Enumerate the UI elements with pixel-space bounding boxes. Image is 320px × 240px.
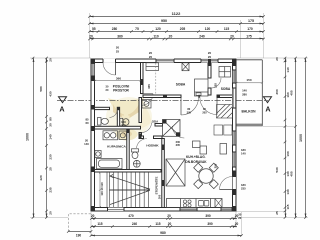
svg-text:140: 140 — [286, 67, 290, 72]
window east living 2 — [233, 152, 237, 167]
svg-text:1000: 1000 — [26, 133, 30, 141]
entrance door bottom — [108, 208, 125, 212]
stairs mid rail — [110, 189, 151, 191]
svg-text:470: 470 — [128, 214, 134, 218]
door size 80/205 right — [202, 107, 207, 114]
armchair — [220, 144, 227, 155]
exterior wall bottom — [91, 208, 236, 212]
svg-text:20: 20 — [169, 35, 173, 39]
svg-text:205: 205 — [202, 110, 207, 114]
wall callout 20/20 right — [208, 51, 212, 59]
section line A-A — [57, 100, 268, 102]
top dimension row 4 (20 360 110 20 240 20 175) — [88, 38, 265, 41]
svg-text:20: 20 — [235, 222, 239, 226]
svg-text:SOBA: SOBA — [176, 83, 186, 87]
svg-text:KUPAONICA: KUPAONICA — [107, 145, 126, 149]
window top 2 — [201, 59, 218, 63]
left dimension column 2 (chain) — [45, 57, 48, 219]
left dimension column 1 (1000) — [32, 57, 35, 219]
door arc soba2 entry (right leaf) — [200, 98, 217, 115]
svg-text:175: 175 — [246, 35, 252, 39]
interior wall I9b — [154, 136, 163, 139]
svg-text:140: 140 — [49, 134, 53, 139]
door arc soba2 — [211, 78, 221, 88]
toilet wc1 — [98, 118, 109, 126]
svg-text:20: 20 — [230, 35, 234, 39]
toilet wc2 — [132, 149, 139, 159]
svg-text:115: 115 — [155, 222, 160, 226]
svg-text:200: 200 — [176, 140, 181, 144]
callout 140/200 — [121, 120, 126, 128]
X-box corner piers — [163, 120, 181, 137]
callout 200/305 — [176, 140, 181, 147]
svg-text:580: 580 — [39, 86, 43, 91]
svg-text:360: 360 — [117, 35, 123, 39]
svg-text:25: 25 — [275, 211, 279, 215]
closet shaft X-box — [163, 120, 181, 137]
top dimension row 2 (950 / 175) — [88, 22, 265, 25]
svg-text:120: 120 — [155, 27, 161, 31]
svg-text:140: 140 — [241, 152, 246, 156]
right dimension column C (1000) — [304, 57, 307, 219]
interior wall I2a (hall north) — [143, 95, 181, 98]
dim 360 poslovni — [94, 80, 142, 82]
hatched pantry box living NE — [217, 105, 233, 119]
svg-text:25: 25 — [49, 167, 53, 171]
svg-text:280: 280 — [112, 27, 118, 31]
svg-text:STEPENIŠTE: STEPENIŠTE — [153, 176, 158, 194]
svg-text:390: 390 — [205, 214, 211, 218]
interior wall I5 (wc east) — [117, 107, 119, 129]
wardrobe soba1 left — [146, 63, 159, 71]
svg-text:205: 205 — [180, 27, 186, 31]
svg-text:115: 115 — [97, 222, 102, 226]
svg-text:60: 60 — [85, 121, 89, 125]
callout 180/140 — [241, 148, 246, 156]
svg-text:980: 980 — [160, 231, 166, 235]
interior wall I4 (wc north) — [95, 107, 110, 109]
double washbasin bathroom — [103, 131, 118, 140]
section marker A right — [264, 97, 272, 103]
door poslovni leaf — [142, 93, 154, 95]
section marker A left — [59, 97, 67, 103]
callout 180/235 — [241, 183, 246, 191]
bed soba1 — [195, 79, 209, 96]
svg-text:BALKON: BALKON — [241, 110, 256, 114]
corner piers — [91, 59, 236, 211]
door arc kupaonica — [142, 123, 152, 133]
svg-text:DN.BORAVAK: DN.BORAVAK — [185, 160, 207, 164]
dimension 190 (porch) — [67, 230, 92, 233]
stairs diagonals — [110, 175, 150, 205]
callout 20/20 kitchen — [238, 212, 242, 220]
svg-text:430: 430 — [49, 91, 53, 96]
svg-text:205: 205 — [187, 110, 192, 114]
top dimension row 1 (1122) — [88, 15, 265, 18]
toilet wc1b — [120, 118, 129, 126]
interior wall I9a — [139, 136, 144, 139]
terrace door east — [220, 177, 237, 190]
svg-text:300: 300 — [275, 89, 279, 94]
bathtub — [97, 159, 123, 169]
interior wall I3 (soba1/soba2) — [208, 63, 211, 79]
svg-text:SOBA: SOBA — [221, 87, 231, 91]
svg-text:200: 200 — [213, 163, 217, 168]
door arc hodnik — [137, 139, 147, 148]
svg-text:240: 240 — [199, 35, 205, 39]
hall cabinet with basin — [142, 100, 151, 109]
window west poslovni — [91, 64, 95, 77]
wall callout 20/25 left — [116, 46, 120, 54]
bottom dimension row 3 (980) — [90, 234, 243, 237]
svg-text:20: 20 — [149, 55, 153, 59]
interior wall I2c — [217, 95, 233, 98]
interior wall I12 (stairs/living) — [162, 139, 165, 208]
svg-text:100: 100 — [286, 151, 290, 156]
balcony outline — [236, 60, 262, 126]
svg-text:A: A — [265, 105, 270, 114]
exterior wall top — [91, 59, 236, 63]
bottom dimension row 2 (115 240 115 20 390 20) — [90, 225, 237, 228]
interior wall I2b center post — [199, 95, 200, 98]
svg-text:30: 30 — [49, 123, 53, 127]
svg-text:20: 20 — [275, 57, 279, 61]
callout 20/140 — [84, 138, 89, 146]
svg-text:80: 80 — [49, 117, 53, 121]
svg-text:175: 175 — [248, 19, 254, 23]
closet front dashed soba1 — [155, 63, 157, 95]
svg-text:1000: 1000 — [299, 134, 303, 142]
watermark logo — [106, 97, 152, 141]
svg-text:20: 20 — [49, 211, 53, 215]
svg-text:390: 390 — [207, 222, 213, 226]
wardrobe soba2 — [219, 67, 231, 78]
door opening top (poslovni) — [103, 59, 116, 75]
svg-text:140: 140 — [84, 142, 89, 146]
window bottom kitchen — [180, 208, 197, 212]
washbasin kupaonica — [95, 151, 101, 158]
balcony door east — [233, 88, 237, 108]
svg-text:305: 305 — [176, 143, 181, 147]
door arc poslovni — [142, 94, 154, 106]
interior wall I8b — [139, 133, 142, 139]
svg-text:235: 235 — [49, 187, 53, 192]
svg-text:420: 420 — [39, 175, 43, 180]
door size 80/205 left — [187, 107, 192, 114]
window east living 1 — [233, 131, 237, 145]
stairs steps — [107, 172, 149, 208]
svg-text:455: 455 — [290, 171, 294, 176]
svg-text:20: 20 — [208, 55, 212, 59]
svg-text:120: 120 — [205, 27, 211, 31]
svg-text:235: 235 — [241, 187, 246, 191]
svg-text:170: 170 — [247, 27, 253, 31]
svg-text:110 10 110: 110 10 110 — [100, 182, 104, 196]
interior wall I6 (mid horizontal) — [95, 126, 141, 129]
bottom dimension row 1 (20 470 20 390 20) — [90, 217, 237, 220]
svg-text:150: 150 — [246, 78, 251, 82]
window bottom living — [221, 208, 232, 212]
svg-text:530: 530 — [275, 167, 279, 172]
svg-text:20: 20 — [238, 216, 242, 220]
svg-text:360: 360 — [116, 76, 121, 80]
svg-text:ODA: ODA — [152, 120, 159, 124]
interior wall I13 stub — [155, 124, 163, 127]
svg-text:1122: 1122 — [172, 11, 181, 16]
porch dashed outline — [68, 214, 91, 232]
svg-text:20: 20 — [168, 222, 172, 226]
svg-text:230: 230 — [49, 154, 53, 159]
right dimension column A (fine chain) — [284, 57, 287, 219]
svg-text:75: 75 — [135, 27, 139, 31]
interior wall I8a (hall west) — [139, 98, 142, 123]
sofa 1 — [193, 141, 201, 148]
dining table round — [199, 169, 213, 183]
svg-text:115: 115 — [286, 204, 290, 209]
interior wall I3b stub — [208, 88, 211, 95]
cabinet X soba1 — [182, 63, 189, 71]
wall callout 20/20 mid — [149, 51, 153, 59]
callout 85/60 — [85, 117, 89, 125]
svg-text:20: 20 — [167, 214, 171, 218]
svg-text:A: A — [59, 105, 64, 114]
top dimension row 3 (55 280 75 120 205 120 115 170) — [88, 30, 265, 33]
door arc wc — [110, 110, 118, 118]
balcony door callout 140/280 — [242, 89, 247, 97]
right dimension column B (455/455) — [294, 57, 297, 219]
svg-text:55: 55 — [92, 27, 96, 31]
svg-text:950: 950 — [161, 19, 167, 23]
label poslovni prostor — [113, 85, 130, 93]
exterior wall west — [91, 59, 95, 211]
door arc living — [172, 126, 184, 138]
fridge X — [215, 199, 222, 208]
svg-text:240: 240 — [132, 222, 138, 226]
wall piers (black) — [91, 59, 236, 195]
shower/bidet wc2 — [133, 160, 140, 167]
callout 30/20 — [106, 84, 109, 92]
sofa 2 — [200, 146, 207, 154]
sofa table X — [166, 159, 185, 186]
balcony width dim 150 — [236, 82, 264, 84]
svg-text:25: 25 — [116, 50, 120, 54]
interior wall I1 (poslovni/soba1) — [141, 63, 144, 94]
svg-text:210: 210 — [213, 83, 217, 88]
svg-text:280: 280 — [242, 93, 247, 97]
svg-text:115: 115 — [224, 27, 229, 31]
window top 1 — [156, 59, 174, 63]
dining chairs (diamonds) — [194, 163, 219, 188]
svg-text:20: 20 — [49, 58, 53, 62]
label kuhinja/dnevni — [185, 155, 207, 164]
exterior wall east — [233, 59, 237, 211]
svg-text:130: 130 — [286, 189, 290, 194]
svg-text:455: 455 — [290, 90, 294, 95]
kitchen counter — [167, 199, 223, 208]
window east soba2 — [233, 70, 237, 83]
svg-text:200: 200 — [121, 124, 126, 128]
svg-text:300: 300 — [157, 194, 161, 199]
door arc soba1 (left leaf) — [181, 98, 199, 116]
stairs width dim line — [99, 172, 101, 209]
pier on I1 — [141, 79, 144, 85]
svg-text:KUH.+BLAG.: KUH.+BLAG. — [186, 155, 206, 159]
sink basins — [199, 201, 209, 207]
stove burners — [183, 200, 191, 207]
washing machine — [119, 131, 127, 140]
svg-text:20: 20 — [91, 214, 95, 218]
svg-text:345: 345 — [147, 84, 151, 89]
svg-text:190: 190 — [76, 233, 82, 237]
interior wall I10 (above stairs) — [95, 170, 162, 173]
dimension end arrows — [33, 16, 307, 237]
svg-text:PROSTOR: PROSTOR — [113, 88, 129, 92]
interior wall I7 (kupaonica/wc2) — [127, 129, 129, 170]
armchair pair living — [214, 125, 232, 135]
svg-text:110: 110 — [153, 35, 158, 39]
svg-text:HODNIK: HODNIK — [146, 143, 159, 147]
